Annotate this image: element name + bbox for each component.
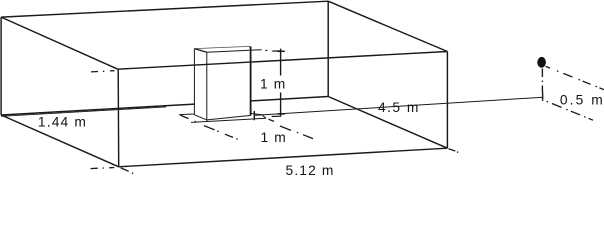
- column front left vertical edge: [206, 52, 208, 122]
- vertical dash-dot from point down to 0.5 m reference: [541, 69, 543, 92]
- box bottom right depth edge: [328, 97, 447, 149]
- box front right vertical edge: [446, 52, 448, 149]
- 4.5 m dimension right tick: [542, 92, 544, 101]
- floor width dimension right leader dash-dot: [269, 119, 314, 138]
- column top back edge: [195, 46, 250, 48]
- box top right depth edge: [328, 1, 447, 51]
- height dimension line 1 m vertical: [280, 49, 282, 117]
- box bottom back edge right part: [251, 97, 328, 101]
- box back left vertical edge: [0, 17, 2, 115]
- dash-dot leader beyond front bottom-left corner: [121, 168, 133, 174]
- height dimension bottom tick: [277, 113, 284, 115]
- 4.5 m dimension left tick: [253, 111, 255, 120]
- svg-text:0.5 m: 0.5 m: [560, 93, 604, 108]
- box bottom back edge double line: [1, 107, 166, 116]
- svg-text:1.44 m: 1.44 m: [38, 114, 87, 129]
- column bottom front edge: [207, 115, 251, 120]
- height dimension bottom extension dash: [272, 115, 281, 117]
- 4.5 m dimension line: [254, 97, 544, 115]
- dash-dot line from 0.5 m corner going front-right: [547, 101, 593, 120]
- column bottom left edge: [194, 115, 206, 120]
- box back right vertical edge: [327, 1, 329, 96]
- column back left vertical edge: [193, 49, 195, 115]
- box bottom back edge left part: [1, 104, 194, 115]
- box bottom front edge (5.12 m edge): [119, 148, 448, 167]
- height dimension (1 m) extension dot and dash at column top: [265, 49, 279, 52]
- dash-dot line from point going front-right: [546, 66, 604, 89]
- box top front edge: [118, 52, 448, 70]
- point mass marker: [537, 57, 546, 68]
- box top left depth edge: [1, 17, 118, 69]
- column right vertical edge: [250, 46, 252, 115]
- column base outline front edge: [191, 118, 266, 122]
- svg-text:1 m: 1 m: [261, 130, 287, 145]
- floor width dimension left leader dash-dot: [180, 115, 237, 139]
- column top left edge: [195, 49, 207, 53]
- column top right edge: [250, 46, 252, 50]
- box bottom left depth edge (1.44 m edge): [1, 115, 119, 167]
- svg-text:5.12 m: 5.12 m: [286, 163, 335, 176]
- dash-dot extension left of box front bottom-left corner: [91, 168, 115, 169]
- svg-text:1 m: 1 m: [260, 77, 286, 92]
- column base outline back edge left part: [179, 113, 194, 116]
- dash-dot leader beyond front bottom-right corner: [449, 149, 459, 153]
- box top back edge: [1, 1, 328, 17]
- box front left vertical edge: [117, 69, 120, 167]
- svg-text:4.5 m: 4.5 m: [378, 100, 420, 115]
- column base outline right edge: [262, 115, 267, 119]
- height dimension top tick: [277, 50, 284, 52]
- column base outline back edge right part: [251, 114, 262, 115]
- dash-dot extension left of box front top-left corner: [91, 71, 115, 72]
- column top front edge with extension overshoot: [207, 50, 262, 53]
